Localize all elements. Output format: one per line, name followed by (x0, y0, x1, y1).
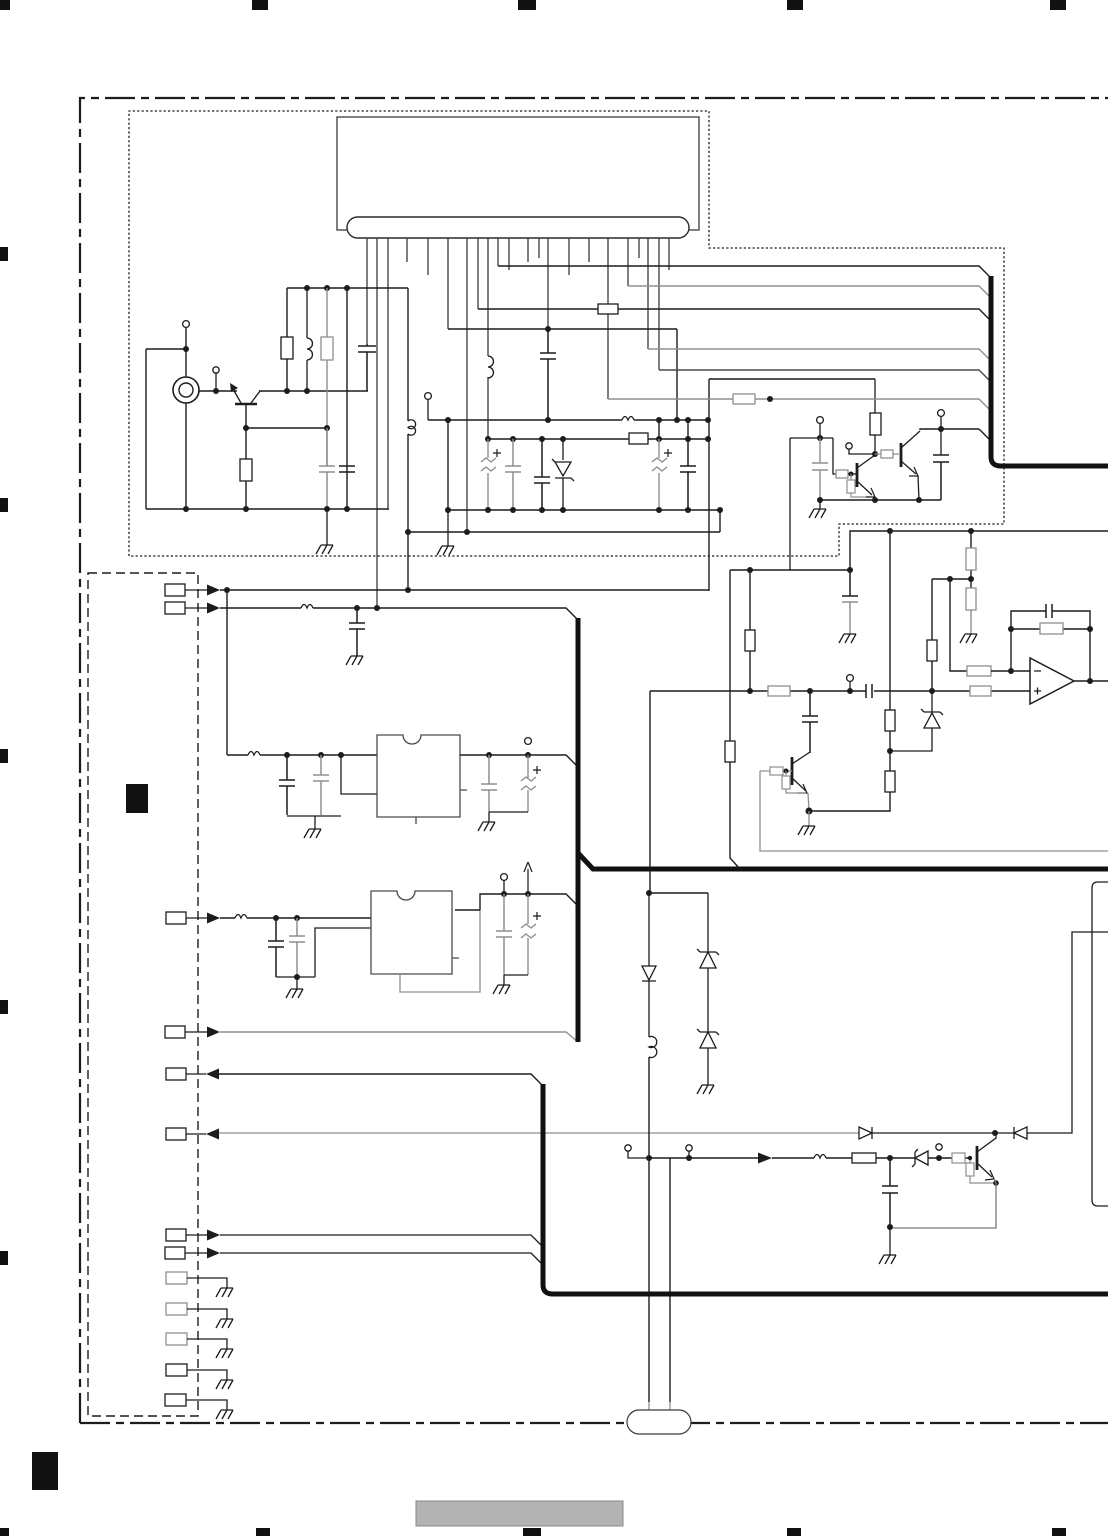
antenna jack J1 double circle (173, 377, 199, 403)
wire TP2 stub (215, 373, 217, 391)
resistor R33 (870, 379, 881, 454)
wire harness row 6 (608, 399, 991, 411)
node dot at TP1 (183, 346, 189, 352)
resistor R75 (966, 1158, 994, 1183)
wire xtal row (448, 328, 677, 330)
resistor R31 (836, 470, 848, 478)
node dots row 531 (887, 528, 974, 534)
resistor R61 (745, 570, 755, 691)
wire Q10 collector rail (259, 390, 368, 392)
wire AGC drop line (789, 438, 791, 570)
terminal circle sw3 (936, 1144, 942, 1150)
inductor L71 (649, 1037, 657, 1058)
wire remote row (219, 1074, 543, 1086)
arrow left CN1-6 (206, 1129, 219, 1140)
connector pin CN1-11 (166, 1333, 187, 1345)
resistor R69 (768, 686, 790, 696)
wire reg2 circle stub (503, 880, 505, 894)
arrow right CN1-1 (207, 585, 220, 596)
wire reg1 feed drop (226, 590, 228, 755)
voltage regulator IC1 (377, 735, 467, 817)
resistor R72 (782, 771, 806, 793)
capacitor C62 (1046, 604, 1052, 618)
ground (437, 546, 454, 555)
wire harness bus 2 elbow to audio (578, 853, 1108, 869)
wire xtal row drop (676, 329, 678, 420)
diode D61 zener (890, 691, 943, 751)
diode D73 zener (697, 1029, 719, 1085)
wire Q2 base tap (849, 449, 875, 454)
wire harness row 1 (498, 266, 991, 278)
node dot detect row (992, 1130, 998, 1136)
node dot xtal row (545, 326, 551, 332)
wire signal row 2 (220, 608, 578, 620)
wire harness row 4 (648, 349, 991, 361)
wire AB links (448, 420, 688, 510)
wire reg2 cap rail (504, 975, 528, 985)
resistor R35 (733, 394, 755, 404)
wire reg1 output row (460, 755, 578, 767)
wire reg2 gnd rail (276, 928, 371, 977)
diode D72 zener (697, 893, 719, 1032)
op-amp U1 main IC body (337, 117, 699, 230)
capacitor C23 (534, 439, 550, 510)
diode D71 (642, 893, 656, 1037)
connector pin CN1-5 (166, 1068, 186, 1080)
wire buffer input node (790, 423, 836, 474)
wire divider row (932, 578, 971, 580)
node dot TP2 (213, 388, 219, 394)
U2 input labels (1034, 671, 1041, 695)
wire C71 gnd stub (889, 1227, 891, 1255)
resistor R64 (966, 531, 976, 588)
wire Q2 collector row (920, 429, 979, 430)
wire Q3 gnd stub (808, 811, 810, 826)
inductor L13 (622, 417, 634, 421)
wire buffer feed line (708, 379, 710, 591)
wire reg1 input row (227, 754, 377, 756)
transistor Q1 (857, 455, 875, 495)
wire data row 2 (220, 1253, 543, 1265)
connector CN2 pill (627, 1402, 691, 1434)
ground (493, 985, 510, 994)
wire reg2 gnd stub (296, 977, 298, 990)
wire U2 output (1074, 680, 1108, 682)
node dots on collector rail (284, 388, 310, 394)
wire power gnd stub (447, 510, 449, 546)
resistor R34 (875, 450, 899, 458)
ground (216, 1380, 233, 1389)
ground (304, 829, 321, 838)
node dots reg2 output (501, 891, 531, 897)
ground rail RF stage (146, 508, 389, 510)
wire CN1-3 lead (186, 917, 207, 919)
resistor R14 (598, 304, 618, 314)
node dots reg1 output (486, 752, 531, 758)
Q3 emitter arrowhead (797, 784, 807, 793)
wire CN1-1 lead (185, 589, 207, 591)
node dot reg2 gnd (294, 974, 300, 980)
resistor R32 (847, 474, 870, 497)
resistor R73 (852, 1153, 876, 1163)
ground (346, 656, 363, 665)
node dots ground rail (183, 506, 350, 512)
capacitor C13 (339, 466, 355, 472)
arrow right CN1-7 (207, 1230, 220, 1241)
wire IC2 gnd loop (400, 910, 480, 992)
node dot C71 bottom (887, 1224, 893, 1230)
wire J1 to Q10 base (199, 390, 237, 392)
wire buffer top row (709, 378, 875, 380)
wire detect row long (219, 1132, 859, 1134)
wire bias line (346, 288, 348, 509)
wire sw2 stub (688, 1151, 690, 1158)
node dots row 570 (747, 567, 853, 573)
wire CN1-11 gnd (187, 1339, 227, 1349)
wire CN1-10 gnd (187, 1309, 227, 1319)
node dots IF row (405, 529, 470, 535)
ground (798, 826, 815, 835)
terminal circle reg1 out (525, 738, 532, 745)
ground (286, 989, 303, 998)
wire Vs stub (427, 399, 429, 420)
wire CN1-13 gnd (186, 1400, 227, 1410)
capacitor C52 (313, 755, 329, 815)
wire supply row B (488, 438, 708, 440)
capacitor C64 (802, 691, 818, 753)
terminal circle TP1 (183, 321, 190, 328)
wire reg1 gnd stub (314, 816, 316, 829)
diode D75 (859, 1127, 872, 1139)
black square marker (126, 784, 148, 813)
capacitor C20 (540, 329, 556, 420)
transistor Q10 (233, 389, 260, 428)
wire rail end drop (719, 510, 721, 532)
capacitor C11 (358, 344, 376, 391)
resistor R74 (952, 1153, 965, 1163)
wire CN1-7 lead (186, 1234, 207, 1236)
wire R67 to opamp (991, 670, 1030, 672)
node dots supply row B (485, 436, 711, 442)
wire left branch down (145, 349, 147, 509)
node dot Q3 emitter (806, 808, 813, 815)
node dot switch row left (646, 1155, 652, 1161)
resistor R70 (970, 686, 991, 696)
node dot out tap (938, 426, 944, 432)
inductor L12 (408, 420, 416, 435)
node dot row 1 (405, 587, 411, 593)
node dots power ground rail (445, 507, 723, 513)
wire harness bus right thick (991, 276, 1108, 466)
node dot inv input (1008, 668, 1014, 674)
arrow right CN1-3 (207, 913, 220, 924)
capacitor C54 electrolytic (521, 755, 541, 812)
node dot Q4 emitter (993, 1180, 999, 1186)
node dot buffer input (817, 435, 823, 441)
wire VCO line down (407, 288, 409, 591)
node dot clamp row (646, 890, 652, 896)
wire TP1 stub (146, 327, 186, 377)
resistor R63 (809, 751, 895, 811)
wire clamp top row (649, 892, 708, 894)
diode D76 (1014, 1127, 1027, 1139)
wire line-out row (220, 1032, 578, 1042)
resistor R11 (281, 288, 293, 391)
wire supply row A (428, 419, 708, 421)
node dot Q4 base (968, 1156, 972, 1160)
wire harness bus 2 thick (576, 618, 581, 1042)
buffer ground rail (820, 499, 941, 501)
transistor Q2 (901, 431, 920, 474)
diode D74 (912, 1149, 928, 1167)
Q2 emitter arrowhead (909, 467, 918, 476)
resistor R71 (770, 767, 783, 775)
resistor R62 (885, 531, 895, 751)
wire top rail of RF stage (287, 287, 408, 289)
capacitor C21 electrolytic (481, 439, 501, 510)
wire ground stub (326, 509, 328, 545)
resistor R65 (966, 588, 976, 634)
wire detect row right loop (1027, 932, 1108, 1133)
wire CN1-8 lead (185, 1252, 207, 1254)
U1 package pill (347, 217, 689, 238)
wire audio tap stub (849, 681, 851, 691)
label box (gray) (416, 1501, 623, 1526)
terminal circle audio tap (847, 675, 854, 682)
resistor R66 (927, 579, 937, 691)
wire right edge loop box (1092, 882, 1108, 1206)
wire Q4 emitter loop (890, 1179, 996, 1228)
node dots on RF top rail (304, 285, 350, 291)
capacitor C61 (842, 570, 858, 634)
resistor R68 (1011, 623, 1090, 634)
inductor L11 (307, 288, 313, 391)
wire IC1 bottom stub (415, 817, 417, 824)
inductor L17 (488, 356, 494, 378)
connector pin CN1-3 (166, 912, 186, 924)
wire CN1-6 lead (186, 1133, 206, 1135)
arrow right CN1-4 (207, 1027, 220, 1038)
node dot divider tap (947, 576, 953, 582)
connector pin CN1-1 (165, 584, 185, 596)
ground (216, 1349, 233, 1358)
arrow right CN1-2 (207, 603, 220, 614)
wire buffer gnd stub (819, 500, 821, 509)
capacitor C31 (933, 455, 949, 500)
wire CN1-4 lead (185, 1031, 207, 1033)
inductor L15 (235, 915, 247, 919)
wire harness row 3 (478, 309, 991, 321)
capacitor C24 electrolytic (652, 439, 672, 510)
wire signal row 1 (220, 589, 709, 591)
wire R31 to Q1 (848, 473, 856, 475)
ground (216, 1410, 233, 1419)
connector pin CN1-10 (166, 1303, 187, 1315)
capacitor C22 (505, 439, 521, 510)
resistor R13 (240, 428, 252, 509)
ground (316, 545, 333, 554)
wire CN1-9 gnd (187, 1278, 227, 1288)
wire Q10 emitter node row (246, 427, 327, 429)
resistor R21 (629, 433, 648, 444)
terminal circle buffer in (817, 417, 824, 424)
node dots row 691 (747, 688, 935, 694)
node dot sw2 (686, 1155, 692, 1161)
resistor R12 (321, 288, 333, 466)
connector pin CN1-6 (166, 1128, 186, 1140)
capacitor C12 (319, 428, 335, 509)
U1 pins (367, 238, 669, 609)
wire harness row 5 (659, 370, 991, 382)
wire audio drop left (649, 691, 651, 893)
wire feedback loop top (1011, 611, 1090, 681)
node dots reg2 input (273, 915, 300, 921)
capacitor C63 (866, 684, 872, 698)
capacitor C51 (279, 755, 295, 815)
capacitor C42 (289, 918, 305, 977)
wire Q2 emitter to rail (918, 476, 919, 500)
wire harness bus 3 thick (543, 1084, 1108, 1294)
arrow up vcc (524, 862, 532, 894)
node dots emitter row (243, 425, 330, 431)
node dot Q3 base (784, 769, 789, 774)
wire inv feed (950, 579, 967, 671)
wire CN1-12 gnd (187, 1370, 227, 1380)
terminal circle sw2 (686, 1145, 692, 1151)
wire audio row 691 (650, 690, 1030, 692)
node dot row 6 (767, 396, 773, 402)
wire harness row 2 (628, 286, 991, 298)
node dots buffer rail (817, 497, 922, 503)
terminal circle reg2 out (501, 874, 508, 881)
wire reg1 cap rail (489, 812, 528, 822)
capacitor C25 (680, 439, 696, 510)
wire Q3 base feedback (760, 771, 1108, 851)
diode D21 zener (552, 439, 574, 510)
resistor R60 drop to harness (725, 570, 740, 869)
connector pin CN1-2 (165, 602, 185, 614)
terminal circle Q2 base tap (846, 443, 852, 449)
ground rail power section (448, 509, 720, 511)
connector pin CN1-13 (165, 1394, 186, 1406)
ground (478, 822, 495, 831)
wire reg2 input row (220, 917, 371, 919)
capacitor C56 electrolytic (521, 894, 541, 975)
arrow right CN1-8 (207, 1248, 220, 1259)
capacitor C14 (349, 608, 365, 656)
wire IF return row (408, 531, 720, 533)
wire out tap stub (940, 416, 942, 455)
arrow right power feed (758, 1153, 772, 1164)
ground (216, 1319, 233, 1328)
node dot reg1 feed (224, 587, 230, 593)
node dots reg1 input (284, 752, 344, 758)
Q1 emitter arrowhead (866, 488, 875, 497)
inductor L14 (301, 605, 313, 609)
wire L71 down (648, 1057, 650, 1402)
wire node row 570 (730, 569, 850, 571)
inductor L16 (248, 752, 260, 756)
terminal circle Vs (425, 393, 432, 400)
connector pin CN1-7 (166, 1229, 186, 1241)
ground (216, 1288, 233, 1297)
connector pin CN1-12 (166, 1364, 187, 1376)
ground (839, 634, 856, 643)
Q10 emitter arrowhead (230, 383, 238, 392)
op-amp U2 (1030, 658, 1074, 704)
wire hook row429 to bus (979, 429, 991, 441)
ground (697, 1085, 714, 1094)
ground (809, 509, 826, 518)
wire supply row 531 (850, 531, 1108, 570)
wire reg1 gnd rail (287, 756, 377, 816)
node dot R62 bottom (887, 748, 893, 754)
wire Q3 base network (760, 770, 792, 772)
wire sw1 stub (628, 1151, 649, 1158)
node dots row 2 (354, 605, 380, 611)
node dots supply row A (445, 417, 711, 423)
wire detect row mid (872, 1132, 1014, 1134)
wire Q3 emitter node (808, 793, 809, 811)
arrow left CN1-5 (206, 1069, 219, 1080)
wire data row 1 (220, 1235, 543, 1247)
terminal circle out tap (938, 410, 945, 417)
connector pin CN1-9 (166, 1272, 187, 1284)
capacitor C53 (481, 755, 497, 812)
wire switch row (649, 1157, 971, 1159)
resistor R67 (967, 666, 991, 676)
wire reg2 output row (455, 894, 578, 910)
inductor L72 (814, 1155, 826, 1159)
connector pin CN1-8 (165, 1247, 185, 1259)
ground (960, 634, 977, 643)
wire CN1-2 lead (185, 607, 207, 609)
node dot Q1 base (849, 472, 854, 477)
wire Q1 emitter to rail (874, 497, 875, 500)
node dot divider (968, 576, 974, 582)
node dot cap tap (887, 1155, 893, 1161)
wire J1 to ground rail (185, 403, 187, 509)
capacitor C41 (268, 918, 284, 977)
node dot D74 out (936, 1155, 942, 1161)
terminal circle TP2 (213, 367, 219, 373)
node dot Q1 collector (872, 451, 878, 457)
transistor Q3 (792, 752, 810, 791)
capacitor C32 (812, 438, 828, 500)
terminal circle sw1 (625, 1145, 631, 1151)
capacitor C55 (496, 894, 512, 975)
wire sw pin drop (669, 1158, 671, 1402)
ground (879, 1255, 896, 1264)
capacitor C71 (882, 1158, 898, 1228)
transistor Q4 (977, 1133, 996, 1180)
connector pin CN1-4 (165, 1026, 185, 1038)
voltage regulator IC2 (371, 891, 459, 974)
node dots feedback (1008, 626, 1093, 684)
wire CN1-5 lead (186, 1073, 206, 1075)
